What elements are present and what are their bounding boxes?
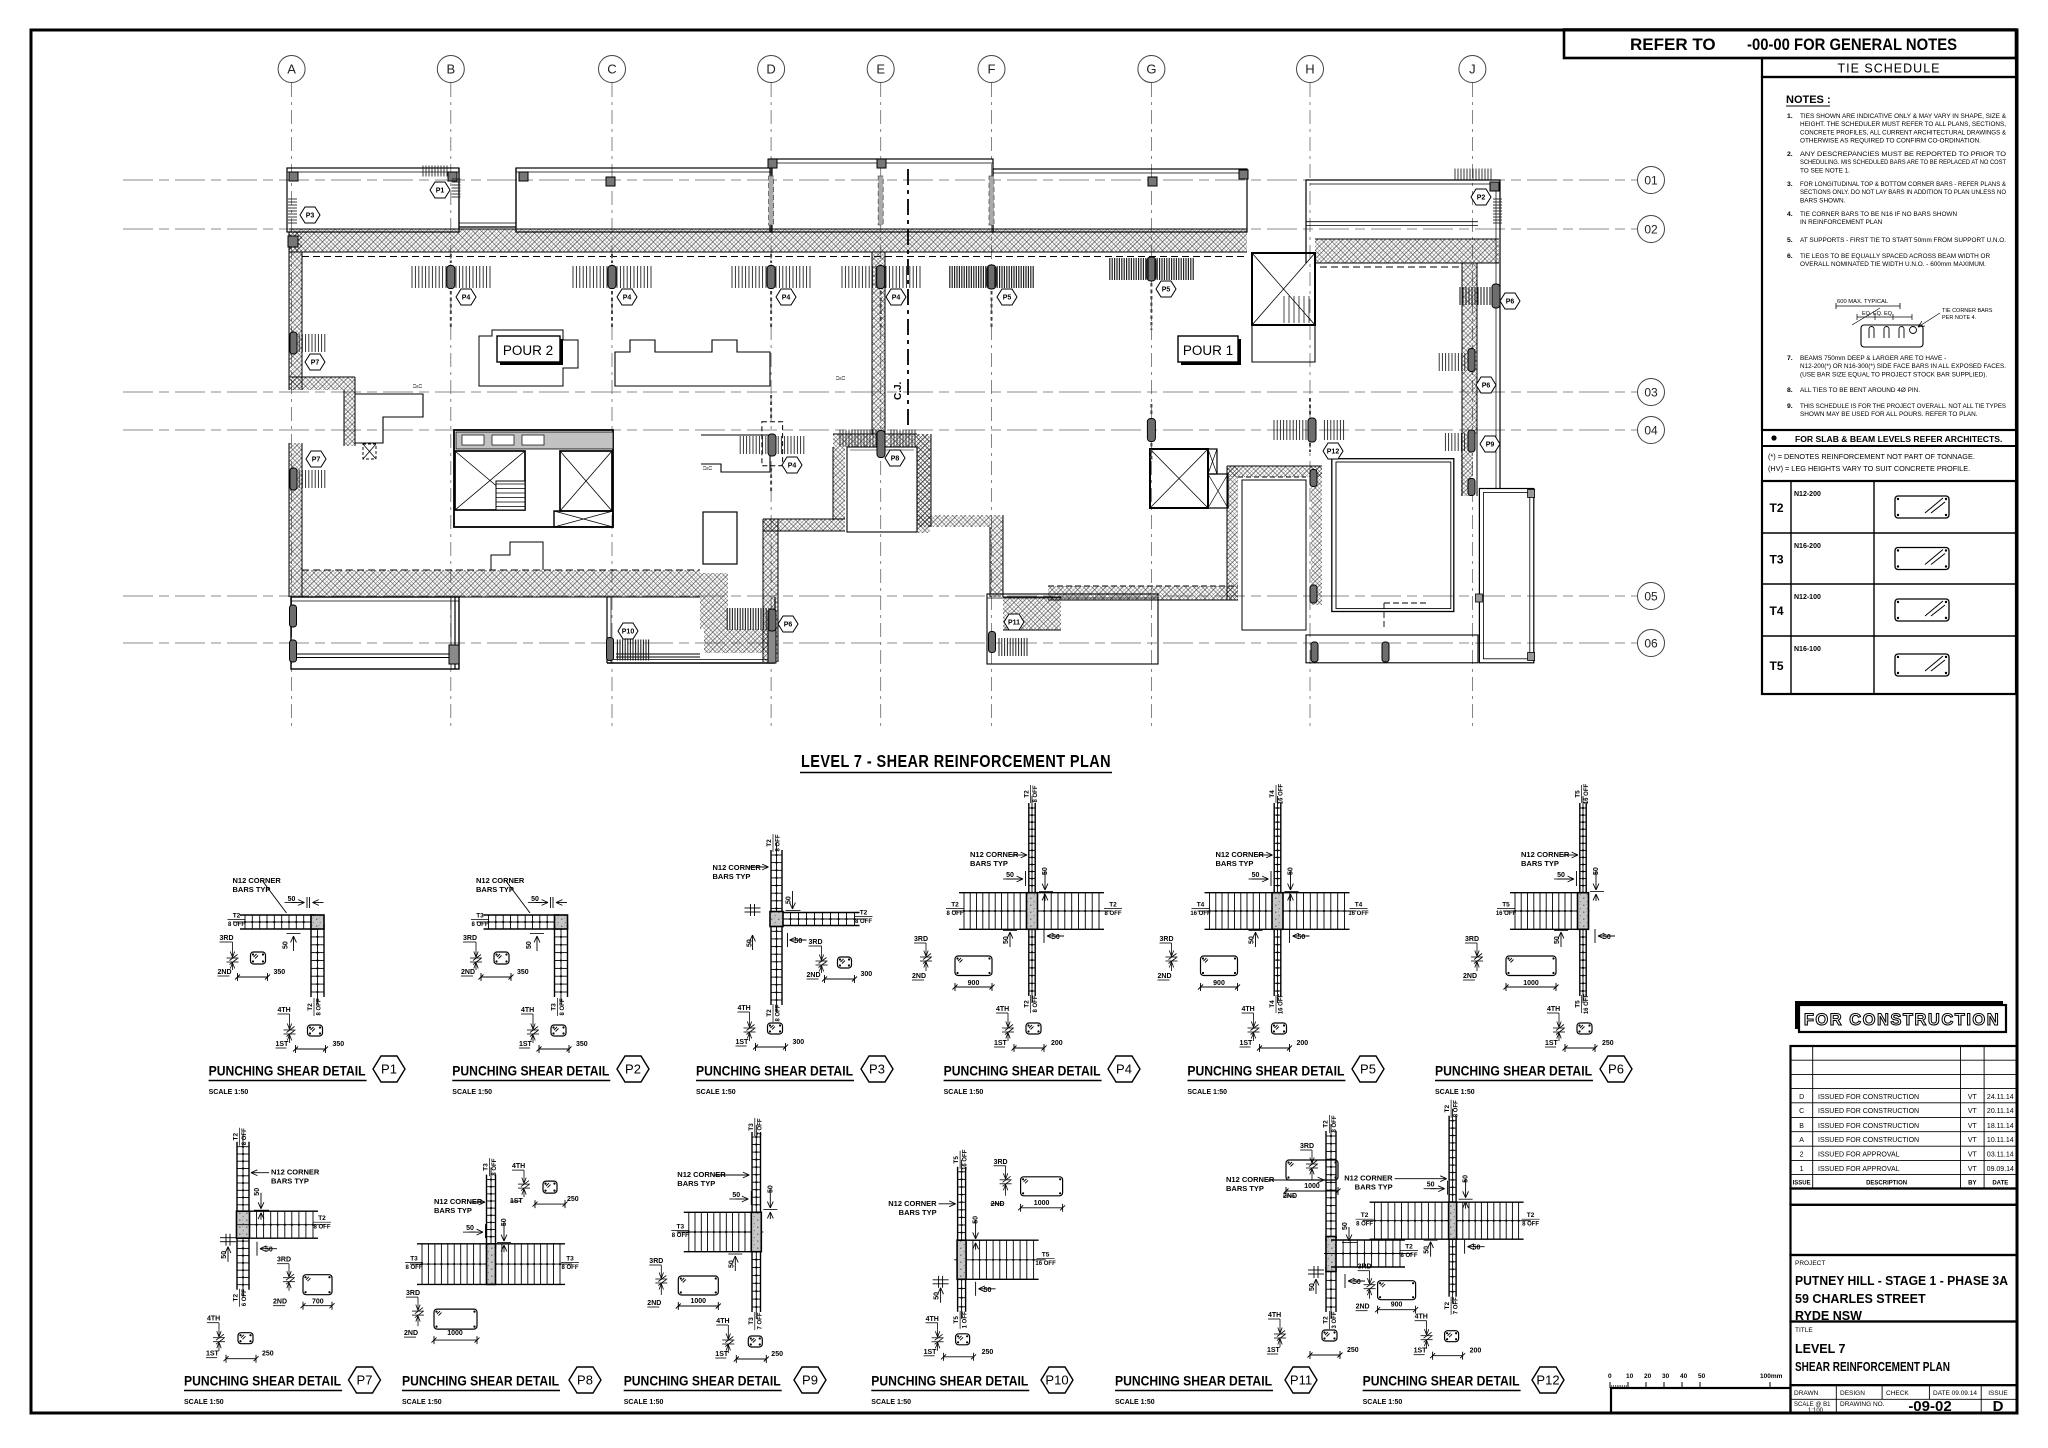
shear marker P5 at G (1147, 257, 1156, 281)
svg-text:50: 50 (973, 1216, 980, 1224)
svg-text:BARS TYP: BARS TYP (271, 1177, 309, 1186)
svg-text:8 OFF: 8 OFF (1033, 995, 1039, 1012)
svg-text:P7: P7 (311, 360, 320, 367)
svg-text:50: 50 (1309, 1283, 1316, 1291)
svg-text:50: 50 (288, 896, 296, 903)
svg-text:SCALE 1:50: SCALE 1:50 (402, 1399, 442, 1406)
bottom band notch outline (491, 542, 543, 570)
svg-text:VT: VT (1968, 1137, 1978, 1144)
scale bar (1610, 1387, 1776, 1389)
svg-text:N12 CORNER: N12 CORNER (434, 1197, 483, 1206)
pour 1 label box (1181, 339, 1241, 365)
svg-text:02: 02 (1644, 223, 1658, 237)
svg-text:8 OFF: 8 OFF (1400, 1253, 1417, 1259)
svg-text:P3: P3 (869, 1062, 885, 1077)
svg-text:N12 CORNER: N12 CORNER (1521, 850, 1570, 859)
P12 planter square outer (1332, 459, 1454, 612)
svg-text:4TH: 4TH (1547, 1006, 1560, 1013)
svg-text:P4: P4 (892, 295, 901, 302)
room below P8 (847, 447, 917, 532)
svg-text:2ND: 2ND (404, 1330, 418, 1337)
left wall pills bottom rooms (290, 605, 297, 627)
svg-text:6.: 6. (1787, 253, 1793, 260)
svg-text:3RD: 3RD (277, 1257, 291, 1264)
svg-text:N12 CORNER: N12 CORNER (1344, 1174, 1393, 1183)
H wall right band hatch (1311, 466, 1322, 605)
pills on bottom strip (1311, 642, 1318, 662)
svg-text:1000: 1000 (1523, 980, 1539, 987)
svg-text:50: 50 (767, 1185, 774, 1193)
svg-text:4TH: 4TH (1268, 1312, 1281, 1319)
svg-text:8 OFF: 8 OFF (313, 1225, 330, 1231)
svg-text:900: 900 (968, 980, 980, 987)
P11 hatch block (1003, 597, 1061, 630)
left wall L-step hatch (289, 377, 355, 390)
svg-text:8 OFF: 8 OFF (492, 1158, 498, 1175)
svg-text:350: 350 (576, 1041, 588, 1048)
svg-text:VT: VT (1968, 1166, 1978, 1173)
svg-text:24.11.14: 24.11.14 (1987, 1094, 2014, 1101)
svg-text:P4: P4 (623, 295, 632, 302)
svg-text:T2: T2 (1444, 1105, 1451, 1113)
svg-text:CONCRETE PROFILES, ALL CURRENT: CONCRETE PROFILES, ALL CURRENT ARCHITECT… (1800, 129, 2007, 136)
svg-text:TO SEE NOTE 1.: TO SEE NOTE 1. (1800, 167, 1850, 174)
svg-text:250: 250 (1347, 1347, 1359, 1354)
svg-text:3RD: 3RD (220, 935, 234, 942)
svg-text:50: 50 (1353, 1279, 1361, 1286)
svg-text:⎕≡⎕: ⎕≡⎕ (413, 384, 422, 390)
P8 labels (483, 1158, 499, 1176)
grid bubbles A-J (278, 56, 305, 83)
P10 labels (953, 1149, 969, 1170)
svg-text:E: E (876, 62, 885, 77)
svg-text:T2: T2 (1323, 1120, 1330, 1128)
svg-text:T2: T2 (766, 839, 773, 847)
svg-text:3RD: 3RD (406, 1290, 420, 1297)
svg-text:T3: T3 (1769, 553, 1783, 567)
svg-text:P8: P8 (891, 456, 900, 463)
svg-text:N12 CORNER: N12 CORNER (888, 1199, 937, 1208)
svg-text:1ST: 1ST (736, 1039, 750, 1046)
svg-text:ISSUED FOR APPROVAL: ISSUED FOR APPROVAL (1818, 1152, 1900, 1159)
denotes note box (1762, 446, 2016, 481)
svg-text:J: J (1469, 62, 1476, 77)
svg-text:ISSUED FOR CONSTRUCTION: ISSUED FOR CONSTRUCTION (1818, 1108, 1919, 1115)
P9 wide beam ladder left (684, 1211, 757, 1213)
svg-text:C: C (1799, 1108, 1804, 1115)
svg-text:ISSUE: ISSUE (1793, 1181, 1811, 1187)
P12 dashed maintenance line (1384, 602, 1427, 604)
svg-text:50: 50 (1252, 872, 1260, 879)
svg-text:LEVEL 7: LEVEL 7 (1795, 1342, 1846, 1356)
svg-text:50: 50 (934, 1292, 941, 1300)
svg-text:18.11.14: 18.11.14 (1987, 1123, 2014, 1130)
P7 vertical ladder (236, 1142, 238, 1290)
svg-text:16 OFF: 16 OFF (1496, 911, 1517, 917)
detail P1 ladder vertical (310, 924, 312, 997)
svg-text:BARS TYP: BARS TYP (1216, 859, 1254, 868)
svg-text:50: 50 (1473, 1245, 1481, 1252)
svg-text:03: 03 (1644, 386, 1658, 400)
svg-text:250: 250 (771, 1351, 783, 1358)
title block narrow band (1791, 1189, 2017, 1205)
svg-text:VT: VT (1968, 1108, 1978, 1115)
svg-text:2ND: 2ND (461, 969, 475, 976)
svg-text:DRAWN: DRAWN (1794, 1390, 1819, 1397)
svg-text:1ST: 1ST (924, 1349, 938, 1356)
svg-text:H: H (1305, 62, 1314, 77)
svg-text:P4: P4 (462, 295, 471, 302)
svg-text:1 OFF: 1 OFF (963, 1311, 969, 1328)
svg-text:16 OFF: 16 OFF (963, 1149, 969, 1170)
detail P2 column (555, 915, 568, 929)
svg-text:59 CHARLES STREET: 59 CHARLES STREET (1795, 1292, 1926, 1306)
svg-text:PUNCHING SHEAR DETAIL: PUNCHING SHEAR DETAIL (1187, 1063, 1344, 1079)
svg-text:10.11.14: 10.11.14 (1987, 1137, 2014, 1144)
P8 column (487, 1244, 496, 1285)
left exterior hatched wall upper (289, 232, 302, 390)
svg-text:2ND: 2ND (991, 1201, 1005, 1208)
lift attachments (1208, 449, 1217, 474)
detail P2 ladder vertical (554, 924, 556, 997)
P7 horizontal beam ladder (245, 1210, 319, 1212)
svg-text:-00-00 FOR GENERAL NOTES: -00-00 FOR GENERAL NOTES (1747, 35, 1957, 54)
svg-text:T3: T3 (483, 1163, 490, 1171)
svg-text:1ST: 1ST (1240, 1040, 1254, 1047)
svg-text:4TH: 4TH (926, 1316, 939, 1323)
svg-text:PUNCHING SHEAR DETAIL: PUNCHING SHEAR DETAIL (1363, 1373, 1520, 1389)
general notes header box (1564, 30, 2016, 59)
svg-text:3RD: 3RD (1358, 1264, 1372, 1271)
svg-text:350: 350 (517, 969, 529, 976)
svg-text:05: 05 (1644, 590, 1658, 604)
shear marker P4 at B (447, 266, 455, 289)
svg-text:250: 250 (262, 1351, 274, 1358)
svg-text:50: 50 (283, 941, 290, 949)
svg-text:DRAWING NO.: DRAWING NO. (1840, 1401, 1885, 1408)
svg-text:PUNCHING SHEAR DETAIL: PUNCHING SHEAR DETAIL (696, 1063, 853, 1079)
svg-text:BARS TYP: BARS TYP (677, 1179, 715, 1188)
svg-text:T2: T2 (860, 910, 868, 917)
svg-text:9.: 9. (1787, 403, 1793, 410)
empty box left of strip (1611, 1388, 1791, 1413)
svg-text:50: 50 (466, 1225, 474, 1232)
P3 marker (288, 236, 298, 247)
svg-text:T4: T4 (1769, 604, 1783, 618)
svg-text:4TH: 4TH (207, 1316, 220, 1323)
title box (1791, 1322, 2017, 1386)
left exterior hatched wall lower (289, 443, 302, 597)
construction joint line (907, 169, 909, 430)
P6 marker right inner (1492, 284, 1500, 308)
svg-text:8 OFF: 8 OFF (242, 1128, 248, 1145)
svg-text:T5: T5 (1575, 1000, 1582, 1008)
P6 marker at D bottom (768, 609, 776, 631)
svg-text:BARS TYP: BARS TYP (713, 872, 751, 881)
svg-text:SCHEDULING. MIS SCHEDULED BARS: SCHEDULING. MIS SCHEDULED BARS ARE TO BE… (1800, 159, 2006, 166)
svg-text:1000: 1000 (447, 1330, 463, 1337)
svg-text:3RD: 3RD (994, 1159, 1008, 1166)
svg-text:16 OFF: 16 OFF (1035, 1261, 1056, 1267)
svg-text:PUNCHING SHEAR DETAIL: PUNCHING SHEAR DETAIL (1115, 1373, 1272, 1389)
elevator core top fixtures (456, 432, 613, 449)
svg-text:3 OFF: 3 OFF (1332, 1311, 1338, 1328)
svg-text:2ND: 2ND (273, 1299, 287, 1306)
svg-text:P6: P6 (1506, 299, 1515, 306)
P7 marker upper (290, 332, 297, 354)
svg-text:P5: P5 (1162, 287, 1171, 294)
svg-text:8 OFF: 8 OFF (1033, 785, 1039, 802)
svg-text:T5: T5 (1575, 790, 1582, 798)
svg-text:P9: P9 (802, 1373, 818, 1388)
P12 planter square inner (1336, 462, 1451, 609)
svg-text:50: 50 (732, 1192, 740, 1199)
svg-text:SCALE 1:50: SCALE 1:50 (1363, 1399, 1403, 1406)
svg-text:ISSUED FOR APPROVAL: ISSUED FOR APPROVAL (1818, 1166, 1900, 1173)
svg-text:T3: T3 (566, 1256, 574, 1263)
svg-text:ISSUED FOR CONSTRUCTION: ISSUED FOR CONSTRUCTION (1818, 1094, 1919, 1101)
svg-text:(*) = DENOTES REINFORCEMENT: (*) = DENOTES REINFORCEMENT NOT PART OF … (1768, 452, 1975, 461)
svg-text:N16-200: N16-200 (1794, 543, 1821, 550)
balcony rect bottom middle (987, 594, 1158, 664)
horizontal grid lines 01-06 (123, 179, 1637, 181)
svg-text:POUR 1: POUR 1 (1183, 343, 1233, 358)
P10 vertical ladder (957, 1167, 959, 1245)
svg-text:SCALE 1:50: SCALE 1:50 (624, 1399, 664, 1406)
svg-text:300: 300 (861, 971, 873, 978)
P12 labels (1444, 1100, 1460, 1118)
svg-text:NOTES :: NOTES : (1786, 94, 1831, 106)
detail P6 column (1578, 893, 1589, 930)
svg-text:P7: P7 (357, 1373, 373, 1388)
svg-text:50: 50 (1052, 934, 1060, 941)
svg-text:PROJECT: PROJECT (1795, 1260, 1825, 1267)
svg-text:T3: T3 (748, 1317, 755, 1325)
svg-text:1000: 1000 (691, 1298, 707, 1305)
svg-text:2ND: 2ND (1283, 1193, 1297, 1200)
svg-text:IN REINFORCEMENT PLAN: IN REINFORCEMENT PLAN (1800, 219, 1883, 226)
svg-text:4TH: 4TH (512, 1163, 525, 1170)
svg-text:8.: 8. (1787, 387, 1793, 394)
svg-text:P4: P4 (1116, 1062, 1132, 1077)
svg-text:T2: T2 (1405, 1244, 1413, 1251)
svg-text:PUNCHING SHEAR DETAIL: PUNCHING SHEAR DETAIL (209, 1063, 366, 1079)
svg-text:F: F (988, 62, 996, 77)
svg-text:1000: 1000 (1034, 1200, 1050, 1207)
shear marker P4 at C (608, 266, 616, 289)
P9 column (751, 1212, 761, 1251)
svg-text:T2: T2 (1109, 902, 1117, 909)
elevator shaft left (455, 451, 525, 510)
svg-text:TIE LEGS TO BE EQUALLY SPACED: TIE LEGS TO BE EQUALLY SPACED ACROSS BEA… (1800, 253, 1990, 260)
svg-text:T2: T2 (1769, 501, 1783, 515)
svg-text:SECTIONS ONLY. DO NOT LAY BARS: SECTIONS ONLY. DO NOT LAY BARS IN ADDITI… (1800, 189, 2006, 196)
shear marker P4 at D (767, 266, 775, 289)
H line 04 marker (1308, 418, 1316, 442)
svg-text:TIES SHOWN ARE INDICATIVE ONLY: TIES SHOWN ARE INDICATIVE ONLY & MAY VAR… (1800, 113, 2007, 120)
svg-text:4TH: 4TH (996, 1006, 1009, 1013)
svg-text:P6: P6 (784, 622, 793, 629)
svg-text:50: 50 (501, 1218, 508, 1226)
elevator core walls (454, 430, 613, 527)
svg-text:50: 50 (728, 1260, 735, 1268)
svg-text:7 OFF: 7 OFF (1454, 1297, 1460, 1314)
P4 marker at D line 04 (762, 422, 783, 466)
svg-text:SCALE 1:50: SCALE 1:50 (209, 1089, 249, 1096)
svg-text:TITLE: TITLE (1795, 1327, 1813, 1334)
svg-text:4TH: 4TH (738, 1005, 751, 1012)
svg-text:250: 250 (982, 1349, 994, 1356)
detail P1 ladder horizontal (240, 914, 316, 916)
svg-text:8 OFF: 8 OFF (776, 834, 782, 851)
svg-text:8 OFF: 8 OFF (560, 998, 566, 1015)
svg-text:2.: 2. (1787, 151, 1793, 158)
P10 wide beam ladder right (961, 1239, 1039, 1241)
svg-text:P7: P7 (312, 457, 321, 464)
E wall hatch vertical (872, 252, 885, 434)
svg-text:4TH: 4TH (1242, 1006, 1255, 1013)
svg-text:50: 50 (1249, 936, 1256, 944)
svg-text:P5: P5 (1003, 295, 1012, 302)
svg-text:P12: P12 (1536, 1373, 1559, 1388)
svg-text:50: 50 (1003, 936, 1010, 944)
pour 2 cloud outline (479, 330, 578, 386)
svg-text:⎕≡⎕: ⎕≡⎕ (836, 376, 845, 382)
detail P5 column (1272, 893, 1283, 930)
svg-text:HEIGHT. THE SCHEDULER MUST REF: HEIGHT. THE SCHEDULER MUST REFER TO ALL … (1800, 121, 2006, 128)
svg-text:P1: P1 (436, 188, 445, 195)
svg-text:50: 50 (1342, 1222, 1349, 1230)
detail P6 wide beam ladder (1510, 892, 1583, 894)
svg-text:3.: 3. (1787, 181, 1793, 188)
svg-text:BARS TYP: BARS TYP (476, 885, 514, 894)
svg-text:4TH: 4TH (278, 1007, 291, 1014)
svg-text:1ST: 1ST (519, 1041, 533, 1048)
svg-text:1ST: 1ST (510, 1198, 524, 1205)
svg-text:PUTNEY HILL - STAGE 1 - PHASE: PUTNEY HILL - STAGE 1 - PHASE 3A (1795, 1274, 2008, 1288)
P11 vertical ladder (1325, 1131, 1327, 1242)
detail P5 labels (1269, 783, 1285, 804)
svg-text:50: 50 (265, 1247, 273, 1254)
svg-text:1ST: 1ST (276, 1041, 290, 1048)
svg-text:1ST: 1ST (1545, 1040, 1559, 1047)
svg-text:2ND: 2ND (1463, 973, 1477, 980)
svg-text:50: 50 (1557, 872, 1565, 879)
svg-text:250: 250 (1602, 1040, 1614, 1047)
svg-text:T2: T2 (233, 913, 241, 920)
svg-text:T5: T5 (1042, 1251, 1050, 1258)
P12 vertical ladder (1448, 1116, 1450, 1207)
P11 marker (989, 632, 996, 653)
svg-text:01: 01 (1644, 174, 1658, 188)
svg-text:900: 900 (1391, 1302, 1403, 1309)
hatched wall top band right building (1315, 239, 1499, 263)
svg-text:SHEAR REINFORCEMENT PLAN: SHEAR REINFORCEMENT PLAN (1795, 1360, 1950, 1374)
vertical grid lines A-J (291, 83, 293, 730)
svg-text:CHECK: CHECK (1886, 1390, 1909, 1397)
svg-text:BARS TYP: BARS TYP (1521, 859, 1559, 868)
svg-text:50: 50 (1698, 1373, 1706, 1380)
svg-text:200: 200 (1297, 1040, 1309, 1047)
svg-text:PUNCHING SHEAR DETAIL: PUNCHING SHEAR DETAIL (1435, 1063, 1592, 1079)
svg-text:2ND: 2ND (912, 973, 926, 980)
svg-text:P12: P12 (1327, 449, 1340, 456)
svg-text:PUNCHING SHEAR DETAIL: PUNCHING SHEAR DETAIL (184, 1373, 341, 1389)
stair treads (496, 481, 525, 510)
svg-text:T2: T2 (1361, 1212, 1369, 1219)
title block bottom strip (1791, 1385, 2017, 1413)
svg-text:1ST: 1ST (1414, 1348, 1428, 1355)
svg-text:50: 50 (1554, 936, 1561, 944)
svg-text:T4: T4 (1355, 902, 1363, 909)
svg-text:2: 2 (1800, 1152, 1804, 1159)
svg-text:06: 06 (1644, 637, 1658, 651)
svg-text:D: D (1799, 1094, 1804, 1101)
svg-text:A: A (287, 62, 296, 77)
detail P4 column (1027, 893, 1038, 930)
svg-text:P8: P8 (577, 1373, 593, 1388)
J wall hatch band (1461, 434, 1473, 496)
svg-text:3RD: 3RD (463, 935, 477, 942)
P6 marker J wall (1468, 349, 1475, 372)
svg-text:BARS TYP: BARS TYP (434, 1206, 472, 1215)
svg-text:AT SUPPORTS - FIRST TIE TO STA: AT SUPPORTS - FIRST TIE TO START 50mm FR… (1800, 237, 2006, 244)
svg-text:T4: T4 (1197, 902, 1205, 909)
P3 labels (766, 834, 782, 852)
D wall vertical hatch (763, 519, 778, 662)
P12 hexagon (1323, 443, 1343, 459)
svg-text:T5: T5 (953, 1316, 960, 1324)
svg-text:C: C (607, 62, 616, 77)
P11 labels (1323, 1115, 1339, 1133)
P8 zone top band hatch (833, 434, 929, 447)
P9 vertical ladder (751, 1132, 753, 1217)
P7 column (237, 1211, 250, 1238)
shear marker P4 at E (877, 266, 885, 289)
svg-text:P4: P4 (782, 295, 791, 302)
svg-text:PUNCHING SHEAR DETAIL: PUNCHING SHEAR DETAIL (402, 1373, 559, 1389)
pour 2 boundary outline (615, 340, 770, 386)
P8 wide beam ladder (417, 1243, 492, 1245)
svg-text:VT: VT (1968, 1123, 1978, 1130)
svg-text:8 OFF: 8 OFF (561, 1265, 578, 1271)
svg-text:50: 50 (1042, 867, 1049, 875)
svg-text:N12 CORNER: N12 CORNER (233, 876, 282, 885)
P3 horizontal ladder (778, 912, 860, 914)
svg-text:T4: T4 (1269, 790, 1276, 798)
svg-text:P10: P10 (1045, 1373, 1068, 1388)
svg-text:3RD: 3RD (809, 939, 823, 946)
lift core F-G (1150, 449, 1208, 508)
svg-text:1:100: 1:100 (1808, 1408, 1824, 1414)
svg-text:8 OFF: 8 OFF (471, 922, 488, 928)
P7 labels (233, 1128, 249, 1146)
lobby inner room dashed (1242, 480, 1306, 630)
bottom-left rooms block (291, 597, 459, 669)
P8 zone left band hatch (833, 447, 845, 520)
svg-text:ISSUE: ISSUE (1988, 1390, 2008, 1397)
svg-text:POUR 2: POUR 2 (503, 343, 553, 358)
svg-text:50: 50 (1298, 934, 1306, 941)
svg-text:50: 50 (984, 1287, 992, 1294)
svg-text:T2: T2 (233, 1294, 240, 1302)
svg-text:600 MAX. TYPICAL: 600 MAX. TYPICAL (1837, 299, 1889, 305)
svg-text:FOR LONGITUDINAL TOP & BOTTOM: FOR LONGITUDINAL TOP & BOTTOM CORNER BAR… (1800, 181, 2007, 188)
svg-text:50: 50 (531, 896, 539, 903)
svg-text:⎕≡⎕: ⎕≡⎕ (703, 466, 712, 472)
svg-text:P10: P10 (622, 629, 635, 636)
svg-text:N12 CORNER: N12 CORNER (476, 876, 525, 885)
